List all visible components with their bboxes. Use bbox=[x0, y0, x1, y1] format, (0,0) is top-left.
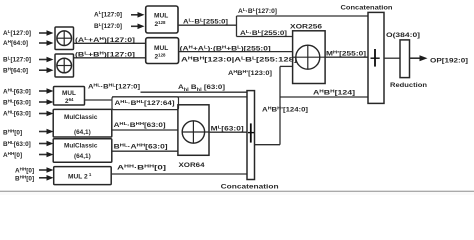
page rule grey line bbox=[0, 191, 474, 195]
svg-text:AHL[63:0]: AHL[63:0] bbox=[3, 87, 31, 95]
multiplier U3 MUL 2^128 bbox=[146, 6, 178, 33]
wire A^L B^L [255:0] into XOR256 bbox=[237, 36, 293, 38]
wire concat to reduction bbox=[384, 57, 400, 59]
xor U2 (B^L+B^H) bbox=[55, 54, 74, 77]
node B^HL input label bbox=[3, 98, 31, 106]
node A^HH input label 2 bbox=[15, 166, 34, 174]
wire M^L output to bottom concatenation bbox=[209, 131, 247, 133]
wire arrow A^L into XOR U1 bbox=[39, 30, 54, 36]
node B^HH input label 2 bbox=[15, 174, 34, 182]
node label A^HL B^HH [63:0] bbox=[114, 121, 166, 129]
svg-text:Concatenation: Concatenation bbox=[221, 184, 279, 191]
node label OP[192:0] bbox=[430, 58, 468, 65]
wire U6 upper output to bottom concatenation bbox=[141, 91, 248, 93]
svg-text:Ahl Bhl [63:0]: Ahl Bhl [63:0] bbox=[178, 84, 225, 92]
wire U1 output to MUL U4 bbox=[74, 42, 146, 44]
node B^HL input label 2 bbox=[3, 140, 31, 148]
node label A^H B^H [123:0 | A^L B^L [255:128] bbox=[181, 56, 297, 64]
svg-text:MUL 2 1: MUL 2 1 bbox=[68, 172, 92, 180]
wire U3 output bbox=[178, 24, 237, 26]
svg-text:BHH[0]: BHH[0] bbox=[3, 128, 22, 136]
node B^L input label bbox=[3, 55, 31, 63]
svg-text:MUL: MUL bbox=[154, 13, 168, 20]
svg-text:AL·BL[127:0]: AL·BL[127:0] bbox=[238, 7, 277, 15]
svg-text:AH[64:0]: AH[64:0] bbox=[3, 39, 28, 47]
svg-text:XOR256: XOR256 bbox=[290, 24, 322, 31]
wire arrow B^HL into MulClassic U8 bbox=[39, 141, 54, 147]
svg-text:AHL·BHL[127:0]: AHL·BHL[127:0] bbox=[88, 82, 140, 90]
node label A^H B^H [124] bbox=[313, 89, 355, 97]
wire arrow B^H into XOR U2 bbox=[39, 67, 54, 73]
node box A^HL B^HL [127:64] bbox=[112, 97, 179, 110]
svg-text:AHBH'[124:0]: AHBH'[124:0] bbox=[262, 106, 308, 114]
svg-text:AL[127:0]: AL[127:0] bbox=[94, 10, 122, 18]
block reduction bbox=[400, 40, 410, 78]
wire U2 output to MUL U4 bbox=[74, 57, 146, 59]
svg-text:AL[127:0]: AL[127:0] bbox=[3, 29, 31, 37]
svg-text:AHL·BHL[127:64]: AHL·BHL[127:64] bbox=[115, 99, 175, 107]
xor U1 (A^L+A^H) bbox=[55, 27, 74, 50]
wire arrow A^HL into MUL U6 bbox=[39, 88, 54, 94]
svg-text:OP[192:0]: OP[192:0] bbox=[430, 58, 468, 65]
svg-text:AHBH[124]: AHBH[124] bbox=[313, 89, 355, 97]
svg-text:AL·BL[255:0]: AL·BL[255:0] bbox=[240, 29, 287, 37]
svg-text:BL[127:0]: BL[127:0] bbox=[3, 55, 31, 63]
wire vertical tee at x=237 bbox=[236, 16, 238, 37]
svg-text:AHL·BHH[63:0]: AHL·BHH[63:0] bbox=[114, 121, 166, 129]
svg-text:Concatenation: Concatenation bbox=[341, 5, 393, 12]
svg-text:BH[64:0]: BH[64:0] bbox=[3, 66, 28, 74]
svg-text:2128: 2128 bbox=[155, 52, 167, 60]
symbol plus inside right concatenation bbox=[371, 49, 380, 67]
svg-text:ML[63:0]: ML[63:0] bbox=[211, 125, 244, 133]
svg-text:BHL[63:0]: BHL[63:0] bbox=[3, 140, 31, 148]
node A^HL input label bbox=[3, 87, 31, 95]
xor U10 XOR64 bbox=[178, 105, 209, 156]
wire arrow B^L into MUL U3 bbox=[131, 24, 145, 30]
label Concatenation top right bbox=[341, 5, 393, 12]
node label (A^L+A^H)[127:0] bbox=[75, 36, 135, 44]
label XOR64 bbox=[179, 162, 205, 169]
svg-text:XOR64: XOR64 bbox=[179, 162, 205, 169]
node label A^HH B^HH [0] bbox=[117, 164, 166, 172]
node label A^L B^L [127:0] bbox=[238, 7, 277, 15]
node label (B^L+B^H)[127:0] bbox=[75, 51, 135, 59]
wire arrow A^HL into MulClassic U7 bbox=[39, 111, 54, 117]
svg-text:O(384:0]: O(384:0] bbox=[386, 32, 420, 39]
svg-text:MUL: MUL bbox=[154, 45, 168, 52]
svg-text:(AL+AH)[127:0]: (AL+AH)[127:0] bbox=[75, 36, 135, 44]
wire bottom concat output to riser bbox=[255, 144, 281, 146]
symbol plus inside bottom concatenation bbox=[248, 123, 254, 142]
svg-text:264: 264 bbox=[65, 97, 74, 105]
wire U7 output into XOR64 bbox=[112, 129, 178, 131]
node A^HL input label 2 bbox=[3, 109, 31, 117]
svg-text:BHL·AHH[63:0]: BHL·AHH[63:0] bbox=[114, 143, 168, 151]
wire arrow OP output bbox=[410, 55, 428, 61]
wire arrow B^HL into MUL U6 bbox=[39, 99, 54, 105]
node label A_hl B_hl [63:0] bbox=[178, 84, 225, 92]
node label M^H'[255:0] bbox=[326, 50, 366, 58]
wire A^L B^L [127:0] to Concatenation bbox=[237, 15, 369, 17]
node label A^H B^H' [124:0] bbox=[262, 106, 308, 114]
svg-text:MulClassic: MulClassic bbox=[64, 114, 98, 121]
node label A^H B^H' [123:0] bbox=[228, 69, 272, 77]
node A^L input label bbox=[3, 29, 31, 37]
wire U9 output to bottom concatenation bbox=[111, 173, 247, 175]
svg-text:AHBH'[123:0]: AHBH'[123:0] bbox=[228, 69, 272, 77]
svg-text:BHL[63:0]: BHL[63:0] bbox=[3, 98, 31, 106]
block concatenation right bbox=[368, 12, 384, 103]
svg-text:MH'[255:0]: MH'[255:0] bbox=[326, 50, 366, 58]
node label A^HL B^HL [127:0] bbox=[88, 82, 140, 90]
label Concatenation bottom bbox=[221, 184, 279, 191]
node label A^L B^L [255:0] bbox=[183, 18, 228, 26]
node A^L input label to MUL U3 bbox=[94, 10, 122, 18]
wire arrow A^H into XOR U1 bbox=[39, 40, 54, 46]
wire arrow A^L into MUL U3 bbox=[131, 12, 145, 18]
svg-text:(64,1): (64,1) bbox=[74, 153, 91, 160]
label Reduction bbox=[390, 82, 427, 89]
node label B^HL A^HH [63:0] bbox=[114, 143, 168, 151]
wire arrow A^HH into MUL U9 bbox=[39, 167, 54, 173]
node label O(384:0] bbox=[386, 32, 420, 39]
node B^HH input label bbox=[3, 128, 22, 136]
wire M^H' output to Concatenation bbox=[325, 56, 368, 58]
multiplier U7 MulClassic (64,1) bbox=[53, 109, 112, 137]
svg-text:(64,1): (64,1) bbox=[74, 129, 91, 136]
label XOR256 bbox=[290, 24, 322, 31]
xor U5 XOR256 bbox=[293, 31, 326, 84]
node B^L input label to MUL U3 bbox=[94, 22, 122, 30]
node label (A^H+A^L)(B^H+B^L)[255:0] bbox=[180, 44, 271, 52]
svg-text:Reduction: Reduction bbox=[390, 82, 427, 89]
wire U8 output into XOR64 bbox=[112, 150, 178, 152]
node label M^L[63:0] bbox=[211, 125, 244, 133]
svg-text:AHBH[123:0|ALBL[255:128]: AHBH[123:0|ALBL[255:128] bbox=[181, 56, 297, 64]
svg-text:MulClassic: MulClassic bbox=[64, 143, 98, 150]
node label A^L B^L [255:0] second bbox=[240, 29, 287, 37]
wire arrow B^HH into MUL U9 bbox=[39, 175, 54, 181]
wire U6 output stub bbox=[85, 99, 113, 101]
svg-text:BHH[0]: BHH[0] bbox=[15, 174, 34, 182]
svg-text:AHH[0]: AHH[0] bbox=[15, 166, 34, 174]
svg-text:(BL+BH)[127:0]: (BL+BH)[127:0] bbox=[75, 51, 135, 59]
wire A^H B^H [124] to Concatenation bbox=[280, 96, 368, 98]
svg-text:BL[127:0]: BL[127:0] bbox=[94, 22, 122, 30]
svg-text:2128: 2128 bbox=[155, 20, 167, 28]
svg-text:AHH[0]: AHH[0] bbox=[3, 151, 22, 159]
svg-text:AL·BL[255:0]: AL·BL[255:0] bbox=[183, 18, 228, 26]
wire arrow B^HH into MulClassic U7 bbox=[39, 129, 54, 135]
svg-text:AHH·BHH[0]: AHH·BHH[0] bbox=[117, 164, 166, 172]
wire riser A^H B^H' vertical bbox=[279, 66, 281, 144]
node A^HH input label bbox=[3, 151, 22, 159]
wire arrow A^HH into MulClassic U8 bbox=[39, 152, 54, 158]
wire U4 output into XOR256 bbox=[179, 51, 293, 53]
multiplier U4 MUL 2^128 bbox=[146, 38, 179, 64]
node B^H input label bbox=[3, 66, 28, 74]
wire XOR256 input 3 from riser bbox=[280, 65, 293, 67]
svg-text:AHL[63:0]: AHL[63:0] bbox=[3, 109, 31, 117]
multiplier U8 MulClassic (64,1) bbox=[53, 139, 112, 163]
multiplier U6 MUL 2^64 bbox=[54, 87, 85, 106]
multiplier U9 MUL 2^1 bbox=[54, 167, 111, 185]
node A^H input label bbox=[3, 39, 28, 47]
wire arrow B^L into XOR U2 bbox=[39, 57, 54, 63]
wire middle line to bottom concatenation bbox=[112, 96, 247, 98]
block concatenation bottom bbox=[247, 91, 255, 180]
